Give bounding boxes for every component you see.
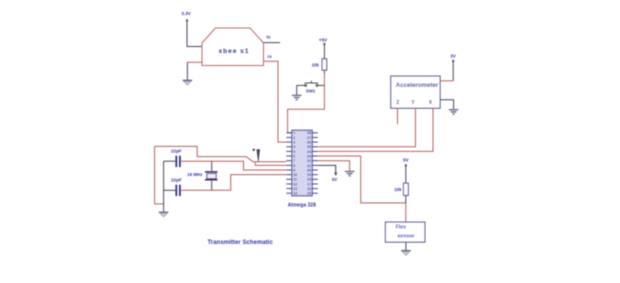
svg-text:14: 14 [293, 192, 297, 196]
wire 3.3V to xbee [187, 21, 202, 47]
svg-text:22: 22 [307, 159, 311, 163]
ground GND5 (pin22) [345, 171, 355, 176]
flex sensor box [385, 222, 425, 242]
svg-text:1: 1 [293, 131, 295, 135]
resistor R1 10k body [322, 59, 327, 70]
svg-text:Flex: Flex [396, 225, 406, 231]
wire switch node to IC pin1 [288, 85, 325, 132]
svg-text:SW1: SW1 [306, 89, 316, 94]
svg-text:11: 11 [293, 178, 297, 182]
wire ground stem xbee [186, 62, 188, 80]
svg-text:21: 21 [307, 164, 311, 168]
ground GND1 (xbee) [183, 80, 193, 85]
wire 5V to R2 [405, 168, 407, 183]
svg-text:22pF: 22pF [171, 148, 182, 153]
IC U1 pin numbers right [307, 131, 311, 195]
wire accelerometer X to IC pin24 [318, 108, 433, 151]
svg-text:4: 4 [293, 145, 295, 149]
IC U1 pin stubs right [312, 133, 318, 193]
wire flex node to flex sensor [405, 203, 407, 222]
wire VCC rail top [155, 146, 287, 161]
crystal X1 symbol [205, 161, 218, 190]
IC U1 Atmega328 body [292, 130, 312, 196]
wire IC pin21 to 5V arrow [318, 165, 336, 172]
svg-text:22pF: 22pF [171, 178, 182, 183]
svg-text:10: 10 [293, 173, 297, 177]
ground GND6 (flex) [401, 251, 411, 256]
svg-text:17: 17 [307, 182, 311, 186]
accelerometer U3 box [391, 76, 440, 108]
power +5V symbol (IC pin7) [253, 149, 261, 162]
svg-text:xbee s1: xbee s1 [219, 48, 250, 55]
wire pin8 branch [255, 162, 286, 166]
IC U1 pin numbers left [293, 131, 297, 195]
wire accelerometer Z (open) [397, 108, 399, 124]
svg-text:18: 18 [307, 178, 311, 182]
svg-text:19: 19 [307, 173, 311, 177]
xbee U2 module outline [202, 28, 264, 66]
wire C2 right to crystal node / pin10 [181, 175, 287, 191]
svg-text:23: 23 [307, 154, 311, 158]
svg-text:20: 20 [307, 168, 311, 172]
svg-text:5: 5 [293, 150, 295, 154]
power 5V symbol (flex divider) [404, 163, 407, 168]
svg-text:3V: 3V [450, 54, 457, 59]
ground GND4 (crystal rail) [159, 212, 169, 217]
wire rx to IC pin3 [264, 61, 287, 142]
svg-text:Atmega 328: Atmega 328 [288, 202, 316, 208]
wire IC pin23 to flex node [318, 156, 406, 203]
wire C2 left [164, 189, 176, 191]
wire accelerometer Y to IC pin25 [318, 108, 416, 147]
svg-text:25: 25 [307, 145, 311, 149]
svg-text:3.3V: 3.3V [181, 11, 191, 16]
svg-text:+5V: +5V [319, 37, 328, 42]
wire C1 right to crystal node / pin9 [181, 161, 287, 170]
wire R1 bottom to switch node [323, 70, 325, 74]
svg-text:Z: Z [396, 100, 399, 106]
svg-text:7: 7 [293, 159, 295, 163]
svg-text:5V: 5V [403, 158, 410, 163]
capacitor C2 plates [176, 185, 180, 196]
wire C1 left [164, 160, 176, 162]
ground GND3 (accelerometer) [449, 110, 459, 115]
resistor R2 10k body [404, 183, 409, 195]
svg-text:16: 16 [307, 187, 311, 191]
capacitor C1 plates [176, 156, 180, 167]
power +5V symbol arrow [323, 42, 326, 45]
svg-text:3: 3 [293, 141, 295, 145]
wire tx [264, 42, 281, 44]
power 5V down arrow (pin21) [334, 173, 337, 177]
svg-text:rx: rx [268, 54, 273, 59]
wire ground rail (crystal section) [163, 161, 165, 211]
svg-text:sensor: sensor [397, 233, 414, 239]
svg-text:10k: 10k [394, 187, 402, 192]
svg-text:12: 12 [293, 182, 297, 186]
svg-text:tx: tx [267, 35, 272, 40]
wire 3V to accelerometer [452, 68, 454, 81]
wire accelerometer to ground [440, 100, 454, 109]
svg-text:15: 15 [307, 192, 311, 196]
svg-text:2: 2 [293, 136, 295, 140]
wire IC pin22 to ground [318, 161, 350, 171]
IC U1 pin stubs left [286, 133, 292, 193]
svg-text:Accelerometer: Accelerometer [396, 82, 439, 89]
svg-text:16 MHz: 16 MHz [187, 172, 203, 177]
svg-text:6: 6 [293, 154, 295, 158]
svg-text:28: 28 [307, 131, 311, 135]
wire flex sensor to ground [405, 242, 407, 250]
svg-text:10k: 10k [312, 63, 320, 68]
svg-text:9: 9 [293, 168, 295, 172]
wire xbee to ground (left bottom) [187, 61, 202, 63]
svg-text:5V: 5V [332, 177, 337, 182]
power 3.3V label [181, 11, 191, 16]
svg-text:13: 13 [293, 187, 297, 191]
ground GND2 (SW1) [292, 95, 302, 100]
svg-text:24: 24 [307, 150, 311, 154]
power 3.3V symbol [186, 18, 189, 21]
svg-text:26: 26 [307, 141, 311, 145]
power 3V symbol arrow [452, 59, 455, 68]
wire SW1 to ground [296, 85, 298, 94]
svg-text:27: 27 [307, 136, 311, 140]
wire +5V to R1 [323, 46, 325, 59]
svg-text:8: 8 [293, 164, 295, 168]
wire R2 bottom to flex node [405, 195, 407, 203]
svg-text:Transmitter Schematic: Transmitter Schematic [208, 240, 274, 246]
switch SW1 [297, 81, 325, 87]
wire left rail (red) [155, 146, 164, 204]
